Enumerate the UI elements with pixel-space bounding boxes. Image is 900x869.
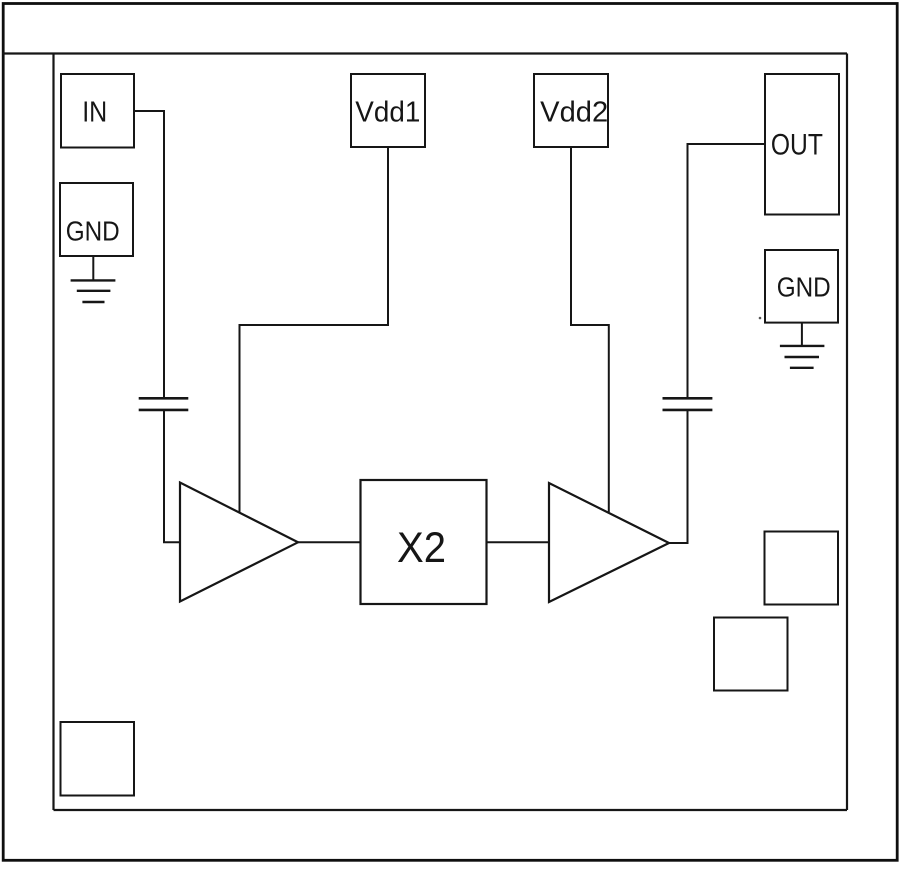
chip outline right edge	[846, 54, 848, 811]
chip outline left edge	[52, 54, 54, 811]
svg-text:Vdd1: Vdd1	[355, 96, 420, 128]
svg-text:X2: X2	[397, 525, 446, 572]
pad GND left	[60, 183, 133, 256]
svg-text:OUT: OUT	[771, 129, 823, 162]
wire Vdd2 pad down	[570, 147, 572, 325]
wire capacitor C1 to amplifier A1 input	[164, 411, 180, 543]
wire node A down to capacitor C1	[163, 110, 165, 397]
wire Vdd1 to amplifier A1 top	[239, 324, 241, 512]
chip outline bottom edge	[54, 809, 848, 811]
svg-text:IN: IN	[82, 97, 107, 129]
unlabeled pad right upper	[765, 532, 839, 605]
frequency doubler X2	[361, 480, 487, 604]
capacitor C1	[139, 398, 189, 410]
wire Vdd1 pad down	[387, 147, 389, 325]
pad Vdd2	[534, 74, 608, 147]
wire capacitor C2 up	[687, 144, 689, 398]
wire Vdd1 horizontal run	[240, 324, 390, 326]
wire Vdd2 horizontal run	[570, 324, 609, 326]
unlabeled pad bottom-left	[61, 722, 135, 796]
pad OUT	[765, 74, 839, 215]
wire IN pad to node A	[134, 110, 164, 112]
wire to OUT pad	[687, 143, 766, 145]
pad Vdd1	[351, 74, 425, 147]
amplifier A1	[180, 483, 298, 602]
pad IN	[61, 74, 134, 148]
chip outline top edge	[2, 52, 847, 54]
wire Vdd2 to amplifier A2 top	[608, 324, 610, 512]
svg-text:Vdd2: Vdd2	[540, 96, 608, 128]
ground symbol left	[71, 256, 116, 302]
amplifier A2	[549, 483, 669, 602]
wire amplifier A2 output to node B	[669, 542, 688, 544]
ground symbol right	[780, 323, 825, 368]
wire amplifier A1 output to X2	[298, 541, 361, 543]
svg-text:GND: GND	[66, 216, 120, 247]
unlabeled pad right lower	[714, 618, 788, 691]
pad GND right	[765, 250, 838, 323]
wire node B up to capacitor C2	[687, 411, 689, 545]
wire X2 output to amplifier A2 input	[487, 541, 550, 543]
svg-text:GND: GND	[777, 272, 831, 303]
capacitor C2	[663, 398, 713, 410]
dot artifact left of right GND pad	[759, 317, 762, 320]
